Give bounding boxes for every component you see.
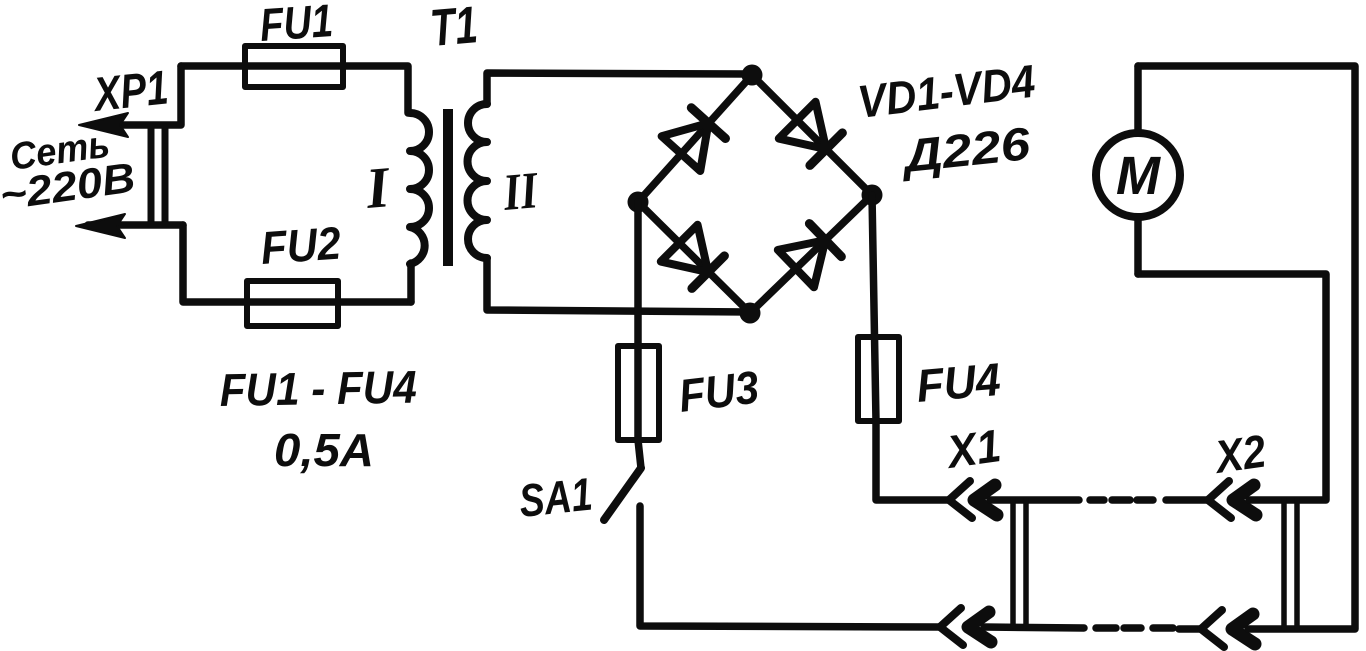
motor M circle xyxy=(1096,133,1180,217)
wire: left loop lower vertical xyxy=(183,225,411,302)
svg-text:I: I xyxy=(362,154,394,221)
wire: stub into X2 upper socket xyxy=(1166,496,1207,504)
wire: bottom rail right to outer riser xyxy=(1138,66,1355,629)
svg-text:FU1 - FU4: FU1 - FU4 xyxy=(219,361,417,416)
fuse FU4 xyxy=(858,337,899,421)
wire: dashed link lower xyxy=(1096,624,1116,632)
plug XP1 body bars xyxy=(148,127,155,223)
connector X2 coupling bars xyxy=(1281,500,1287,629)
svg-text:FU4: FU4 xyxy=(914,353,1002,412)
wire: bridge edge top-right xyxy=(752,75,872,195)
svg-text:FU2: FU2 xyxy=(259,216,343,273)
plug XP1 pin arrow (top) xyxy=(79,113,128,137)
diode VD4 (bottom-right arm) xyxy=(778,221,844,287)
node: bridge right junction xyxy=(862,185,883,206)
switch SA1 blade xyxy=(604,468,641,520)
svg-text:VD1-VD4: VD1-VD4 xyxy=(855,55,1038,128)
wire: dashed link upper xyxy=(1090,496,1104,504)
wire: bridge edge left-bottom xyxy=(638,202,750,313)
svg-text:II: II xyxy=(500,162,541,222)
wire: X1 upper to dash break xyxy=(990,496,1079,504)
wire: right node down through FU4 xyxy=(872,195,876,421)
wire: switch fixed contact down to bottom rail xyxy=(640,506,939,627)
connector X2 lower pin arrow xyxy=(1232,614,1255,644)
wire: left node down through FU3 xyxy=(634,202,642,440)
svg-text:0,5А: 0,5А xyxy=(274,424,374,476)
wire: FU3 to switch xyxy=(638,440,641,468)
svg-text:FU1: FU1 xyxy=(258,0,334,51)
diode VD1 (top-left arm) xyxy=(662,106,728,171)
fuse FU1 xyxy=(245,46,343,87)
wire: primary loop top xyxy=(181,66,408,113)
diode VD2 (top-right arm) xyxy=(779,102,845,168)
wire: primary bottom stub xyxy=(407,263,415,302)
diode VD3 (bottom-left arm) xyxy=(661,225,727,291)
wire: bridge edge bottom-right xyxy=(750,195,872,313)
svg-text:T1: T1 xyxy=(428,0,480,58)
node: bridge bottom junction xyxy=(740,303,761,324)
node: bridge left junction xyxy=(628,192,649,213)
svg-text:X1: X1 xyxy=(941,419,1004,478)
fuse FU2 xyxy=(247,281,338,326)
wire: motor bottom stub xyxy=(1134,218,1142,274)
wire: stub into X2 lower socket xyxy=(1179,625,1200,633)
svg-text:M: M xyxy=(1116,146,1161,206)
connector X1 lower socket chevron xyxy=(940,608,963,645)
connector X2 upper pin arrow xyxy=(1233,485,1256,515)
transformer T1 secondary winding II xyxy=(468,104,488,258)
fuse FU3 xyxy=(618,346,659,440)
wire: X2 upper right to inner riser and motor xyxy=(1138,274,1326,500)
svg-text:SA1: SA1 xyxy=(517,468,595,527)
svg-text:XP1: XP1 xyxy=(89,61,171,122)
plug XP1 pin arrow (bottom) xyxy=(88,221,183,229)
connector X2 lower socket chevron xyxy=(1201,610,1224,647)
wire: motor top stub xyxy=(1134,66,1142,133)
svg-text:X2: X2 xyxy=(1210,424,1270,483)
wire: bridge edge left-top xyxy=(638,75,752,202)
svg-text:Д226: Д226 xyxy=(897,117,1033,182)
transformer T1 core xyxy=(443,109,453,266)
connector X1 upper socket chevron xyxy=(949,481,972,518)
wire: secondary top to bridge xyxy=(487,73,750,104)
svg-text:FU3: FU3 xyxy=(676,361,762,422)
connector X1 upper pin arrow xyxy=(974,485,997,515)
wire: secondary bottom to bridge xyxy=(487,258,750,312)
wire: X1 lower to dash break xyxy=(984,627,1084,628)
node: bridge top junction xyxy=(742,65,763,86)
wire: FU4 down and right to X1 xyxy=(876,421,948,500)
wire: left loop upper vertical xyxy=(92,66,181,125)
connector X1 coupling bars xyxy=(1010,500,1016,626)
connector X1 lower pin arrow xyxy=(968,612,991,642)
connector X2 upper socket chevron xyxy=(1208,481,1231,518)
transformer T1 primary winding I xyxy=(410,113,429,264)
